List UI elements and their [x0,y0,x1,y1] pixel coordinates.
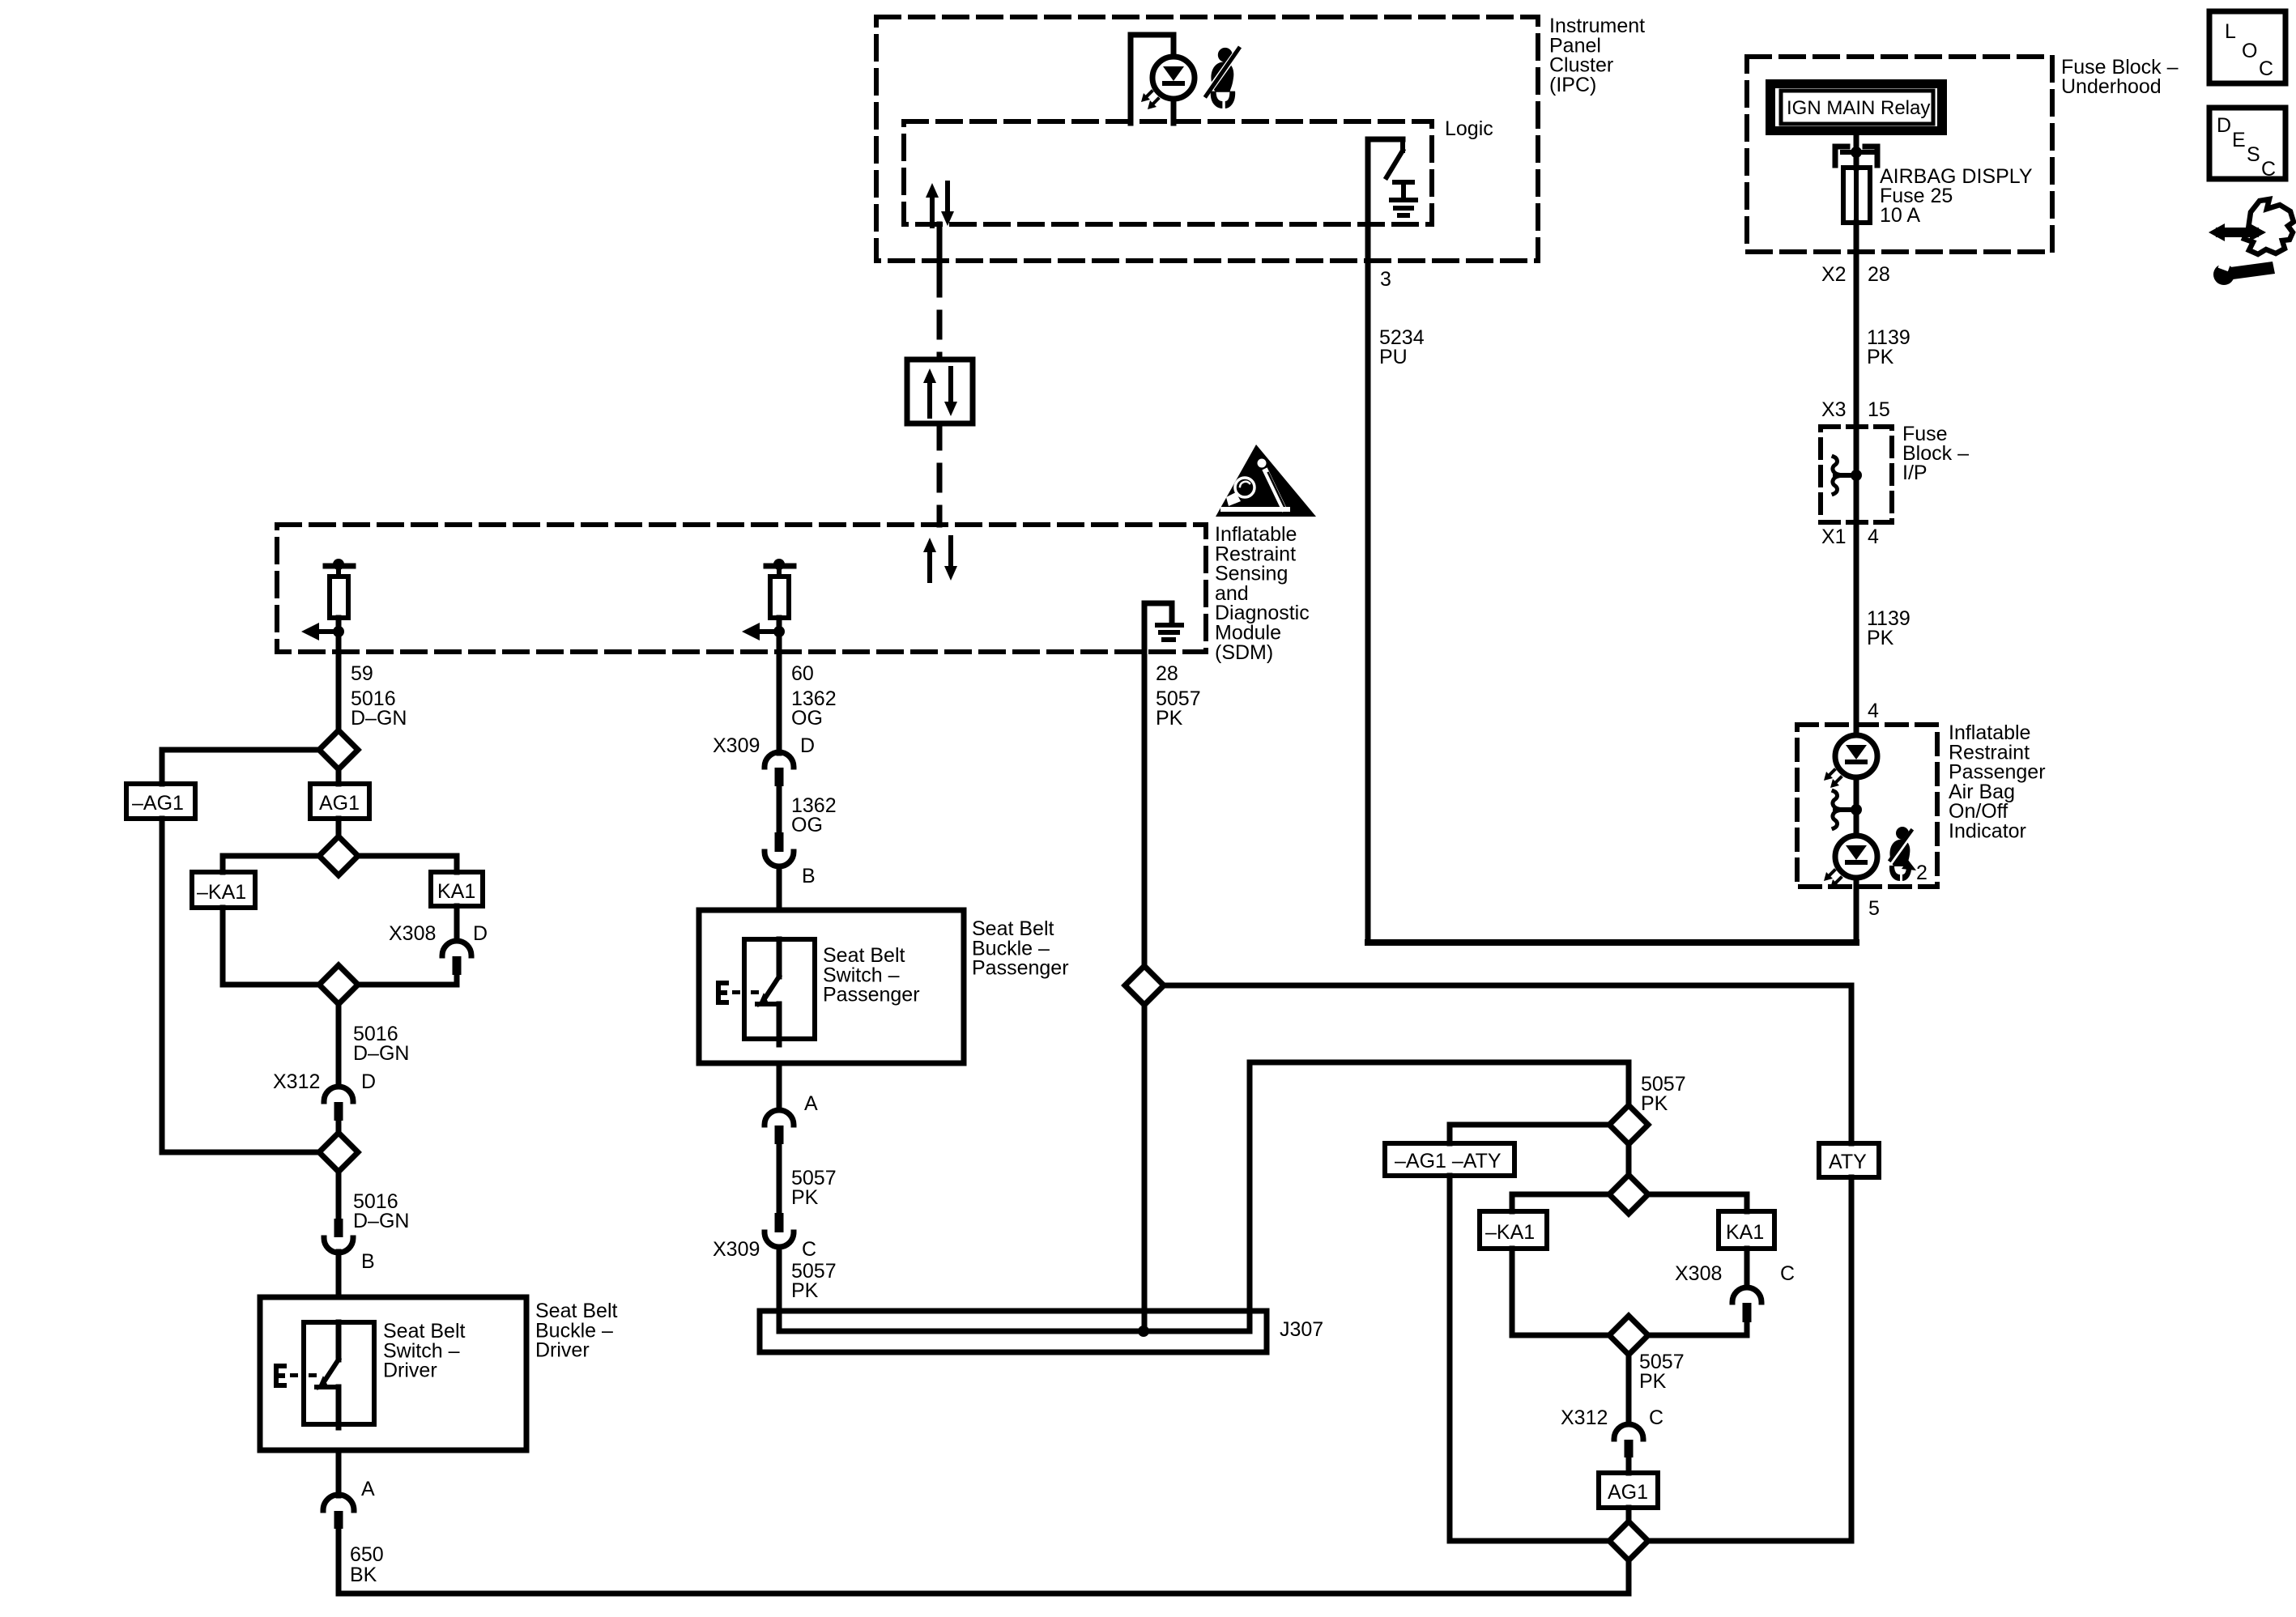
connector X312 pin C [1614,1424,1643,1439]
svg-text:15: 15 [1868,398,1890,421]
svg-text:X312: X312 [1561,1406,1608,1429]
wire 5 to logic pin 3 [1368,939,1856,946]
wire S6 to S7 [1626,1144,1632,1175]
svg-text:PK: PK [1867,346,1894,368]
svg-text:D–GN: D–GN [353,1210,409,1232]
wire S4 to connector B [336,1172,342,1219]
ground logic (IPC) [1395,180,1412,185]
svg-text:Driver: Driver [383,1360,437,1382]
svg-text:D: D [2217,114,2231,137]
svg-text:PU: PU [1379,346,1408,368]
switch logic (IPC) [1400,139,1405,151]
box -KA1 right [1480,1211,1547,1249]
connector X308 pin D [442,941,471,955]
wire S2 to -KA1 [223,856,319,872]
wire -AG1 down [162,819,319,1152]
LED indicator upper [1835,735,1877,777]
svg-text:X308: X308 [1675,1262,1722,1285]
wire X312 to S4 [336,1121,342,1133]
box switch inner passenger [744,939,815,1039]
wire relay to fuse [1854,135,1859,168]
svg-text:–KA1: –KA1 [197,881,246,904]
splice diamond S5 [1125,966,1164,1005]
svg-text:PK: PK [791,1186,819,1209]
box AG1 [310,784,369,819]
svg-text:KA1: KA1 [1726,1221,1764,1244]
fuse element I/P [1851,470,1862,481]
splice diamond S1 left [319,730,358,769]
svg-text:Logic: Logic [1445,117,1493,140]
label E driver [274,1364,279,1388]
connector passenger pin A [765,1110,794,1125]
svg-text:4: 4 [1868,526,1879,548]
svg-text:–AG1 –ATY: –AG1 –ATY [1395,1150,1502,1172]
wire B to buckle [336,1252,342,1297]
wire X312 C to AG1 [1626,1457,1632,1473]
box ATY [1819,1143,1879,1177]
icon LOC box [2209,11,2285,83]
svg-text:OG: OG [791,707,823,730]
svg-text:–AG1: –AG1 [132,792,184,815]
LED indicator lower [1835,836,1877,878]
fuse element indicator [1851,804,1862,815]
splice diamond S3 left [319,965,358,1004]
resistor SDM pin 59 [326,564,353,569]
svg-text:AG1: AG1 [319,792,360,815]
box KA1 left [431,872,483,906]
wire AG1 to S9 [1626,1508,1632,1521]
LED airbag indicator lamp (IPC) [1152,57,1195,99]
wire X1 down [1854,522,1859,735]
wire 5057 PK passenger [777,1144,782,1213]
Indicator dashed box [1797,725,1937,887]
wire LED loop [1131,35,1174,123]
svg-text:3: 3 [1380,268,1391,291]
icon DESC box [2209,108,2285,179]
switch seat belt passenger [777,939,782,977]
svg-text:650: 650 [350,1543,384,1566]
svg-text:C: C [2259,57,2273,80]
svg-text:10 A: 10 A [1880,204,1920,227]
svg-text:A: A [361,1478,375,1500]
svg-text:AG1: AG1 [1608,1481,1648,1504]
ground SDM pin 28 [1144,603,1172,652]
wire fuse to X2 [1854,223,1859,428]
wire B to passenger buckle [777,866,782,910]
svg-text:4: 4 [1868,700,1879,722]
wire S1 to AG1 [336,769,342,784]
svg-text:PK: PK [1156,707,1183,730]
svg-text:5: 5 [1868,897,1880,920]
fuse AIRBAG DISPLY Fuse 25 10A [1843,168,1870,223]
wire buckle to connector A [336,1450,342,1496]
splice pack J307 [760,1311,1267,1352]
serial data arrows (SDM) [927,549,932,581]
connector X309 pin D [765,752,794,767]
svg-text:59: 59 [351,662,373,685]
svg-text:D: D [361,1070,376,1093]
svg-text:2: 2 [1916,862,1928,884]
resistor SDM pin 60 [766,564,794,569]
Fuse Block I/P dashed box [1821,427,1892,522]
wire S2 to KA1 [358,856,457,872]
svg-text:Underhood: Underhood [2061,75,2162,98]
box Seat Belt Buckle Passenger [699,910,964,1063]
splice diamond S9 [1609,1521,1648,1560]
splice diamond S4 left [319,1133,358,1172]
wire LED1 to fuse [1854,777,1859,836]
wire -AG1 -ATY down [1450,1176,1609,1541]
serial data box [907,360,973,423]
wire KA1 to X308 C [1744,1249,1750,1287]
splice diamond S8 [1609,1316,1648,1355]
svg-text:A: A [804,1092,818,1115]
svg-text:(SDM): (SDM) [1215,641,1273,664]
wire S7 to KA1 right [1648,1194,1747,1211]
svg-text:C: C [2261,158,2276,181]
splice diamond S6 [1609,1105,1648,1144]
svg-text:X309: X309 [713,1238,760,1261]
svg-text:(IPC): (IPC) [1549,74,1596,96]
wire J307 corner to S6 [1250,1062,1629,1331]
connector driver buckle pin B [334,1219,343,1237]
switch seat belt driver [336,1322,342,1360]
wire -KA1 to S8 [1512,1249,1609,1335]
svg-text:IGN MAIN Relay: IGN MAIN Relay [1787,97,1930,119]
box AG1 right [1599,1473,1658,1508]
svg-text:Passenger: Passenger [972,957,1069,980]
svg-text:B: B [361,1250,375,1273]
junction dot J307 [1138,1326,1149,1337]
wire logic switch to pin 3 [1368,139,1403,943]
svg-text:Indicator: Indicator [1949,820,2026,843]
connector X309 pin C [775,1213,784,1232]
splice diamond S2 left [319,836,358,875]
wire 650 BK bottom run [339,1529,1629,1594]
wire S5 to J307 [1142,1005,1148,1331]
wire buckle to connector A passenger [777,1063,782,1110]
box -AG1 [126,784,195,819]
connector X312 pin D [324,1087,353,1101]
wire X308 to S3 [358,975,457,985]
svg-text:PK: PK [1641,1092,1668,1115]
svg-text:Passenger: Passenger [823,984,920,1006]
svg-text:X2: X2 [1821,263,1847,286]
wire C to J307 [777,1247,782,1331]
wire IPC pin to data box [937,224,943,267]
svg-text:–KA1: –KA1 [1485,1221,1535,1244]
svg-text:X312: X312 [273,1070,320,1093]
wire SDM 28 down [1142,652,1148,966]
svg-text:KA1: KA1 [437,880,475,903]
svg-text:28: 28 [1868,263,1890,286]
icon seat belt (IPC) [1204,47,1241,109]
Fuse Block Underhood dashed box [1747,57,2052,252]
wire KA1 to X308 [454,906,460,941]
wire ATY down [1648,1177,1851,1541]
Logic dashed box [904,121,1432,224]
svg-text:BK: BK [350,1564,377,1586]
svg-text:I/P: I/P [1902,462,1928,484]
label E passenger [716,981,721,1005]
SDM dashed box [277,525,1206,652]
icon wrench [2230,262,2275,279]
svg-text:L: L [2225,20,2236,43]
svg-text:PK: PK [1867,627,1894,649]
wire SDM 59 down [336,652,342,730]
relay IGN MAIN Relay [1766,79,1947,135]
svg-text:B: B [802,865,816,887]
wire SDM 60 down [777,652,782,753]
wire -KA1 to S3 [223,908,319,985]
svg-text:PK: PK [1639,1370,1667,1393]
svg-text:PK: PK [791,1279,819,1302]
svg-text:C: C [802,1238,816,1261]
svg-text:J307: J307 [1280,1318,1323,1341]
wire S8 to X312 C [1626,1355,1632,1424]
svg-text:O: O [2242,40,2257,62]
fuse holder clips [1835,147,1847,165]
svg-text:X1: X1 [1821,526,1847,548]
box -KA1 [192,872,255,908]
svg-text:D–GN: D–GN [353,1042,409,1065]
svg-text:X3: X3 [1821,398,1847,421]
svg-text:OG: OG [791,814,823,836]
wire S6 to -AG1 -ATY [1450,1125,1609,1143]
wire S5 to ATY column [1164,985,1851,1143]
svg-text:C: C [1780,1262,1795,1285]
svg-text:X309: X309 [713,734,760,757]
box KA1 right [1719,1211,1774,1249]
wire AG1 to S2 [336,819,342,836]
box -AG1 -ATY [1385,1143,1514,1176]
icon seat belt (indicator) [1884,826,1916,881]
svg-text:60: 60 [791,662,814,685]
svg-text:X308: X308 [389,922,436,945]
IPC dashed box [876,17,1538,261]
svg-text:E: E [2232,129,2246,151]
svg-text:D–GN: D–GN [351,707,407,730]
serial data arrows (IPC logic) [930,194,935,226]
svg-text:D: D [473,922,488,945]
wire X308 C to S8 [1648,1322,1747,1335]
wire 1362 OG mid [777,786,782,832]
box Seat Belt Buckle Driver [260,1297,526,1450]
wire S7 to -KA1 right [1512,1194,1609,1211]
connector X308 pin C [1732,1287,1761,1302]
wire data box to SDM [937,423,943,525]
svg-text:28: 28 [1156,662,1178,685]
wire LED2 to 5 [1854,878,1859,943]
wire S3 to X312 [336,1004,342,1087]
connector X309 body B side [775,832,784,852]
svg-text:D: D [800,734,815,757]
splice diamond S7 [1609,1175,1648,1214]
svg-text:ATY: ATY [1829,1151,1867,1173]
wire to -AG1 [162,750,319,784]
svg-text:Driver: Driver [535,1339,590,1362]
icon tool hand arrow [2244,199,2294,254]
connector driver pin A [323,1495,354,1510]
svg-text:S: S [2247,143,2260,166]
box switch inner driver [304,1322,374,1424]
svg-text:C: C [1649,1406,1663,1429]
